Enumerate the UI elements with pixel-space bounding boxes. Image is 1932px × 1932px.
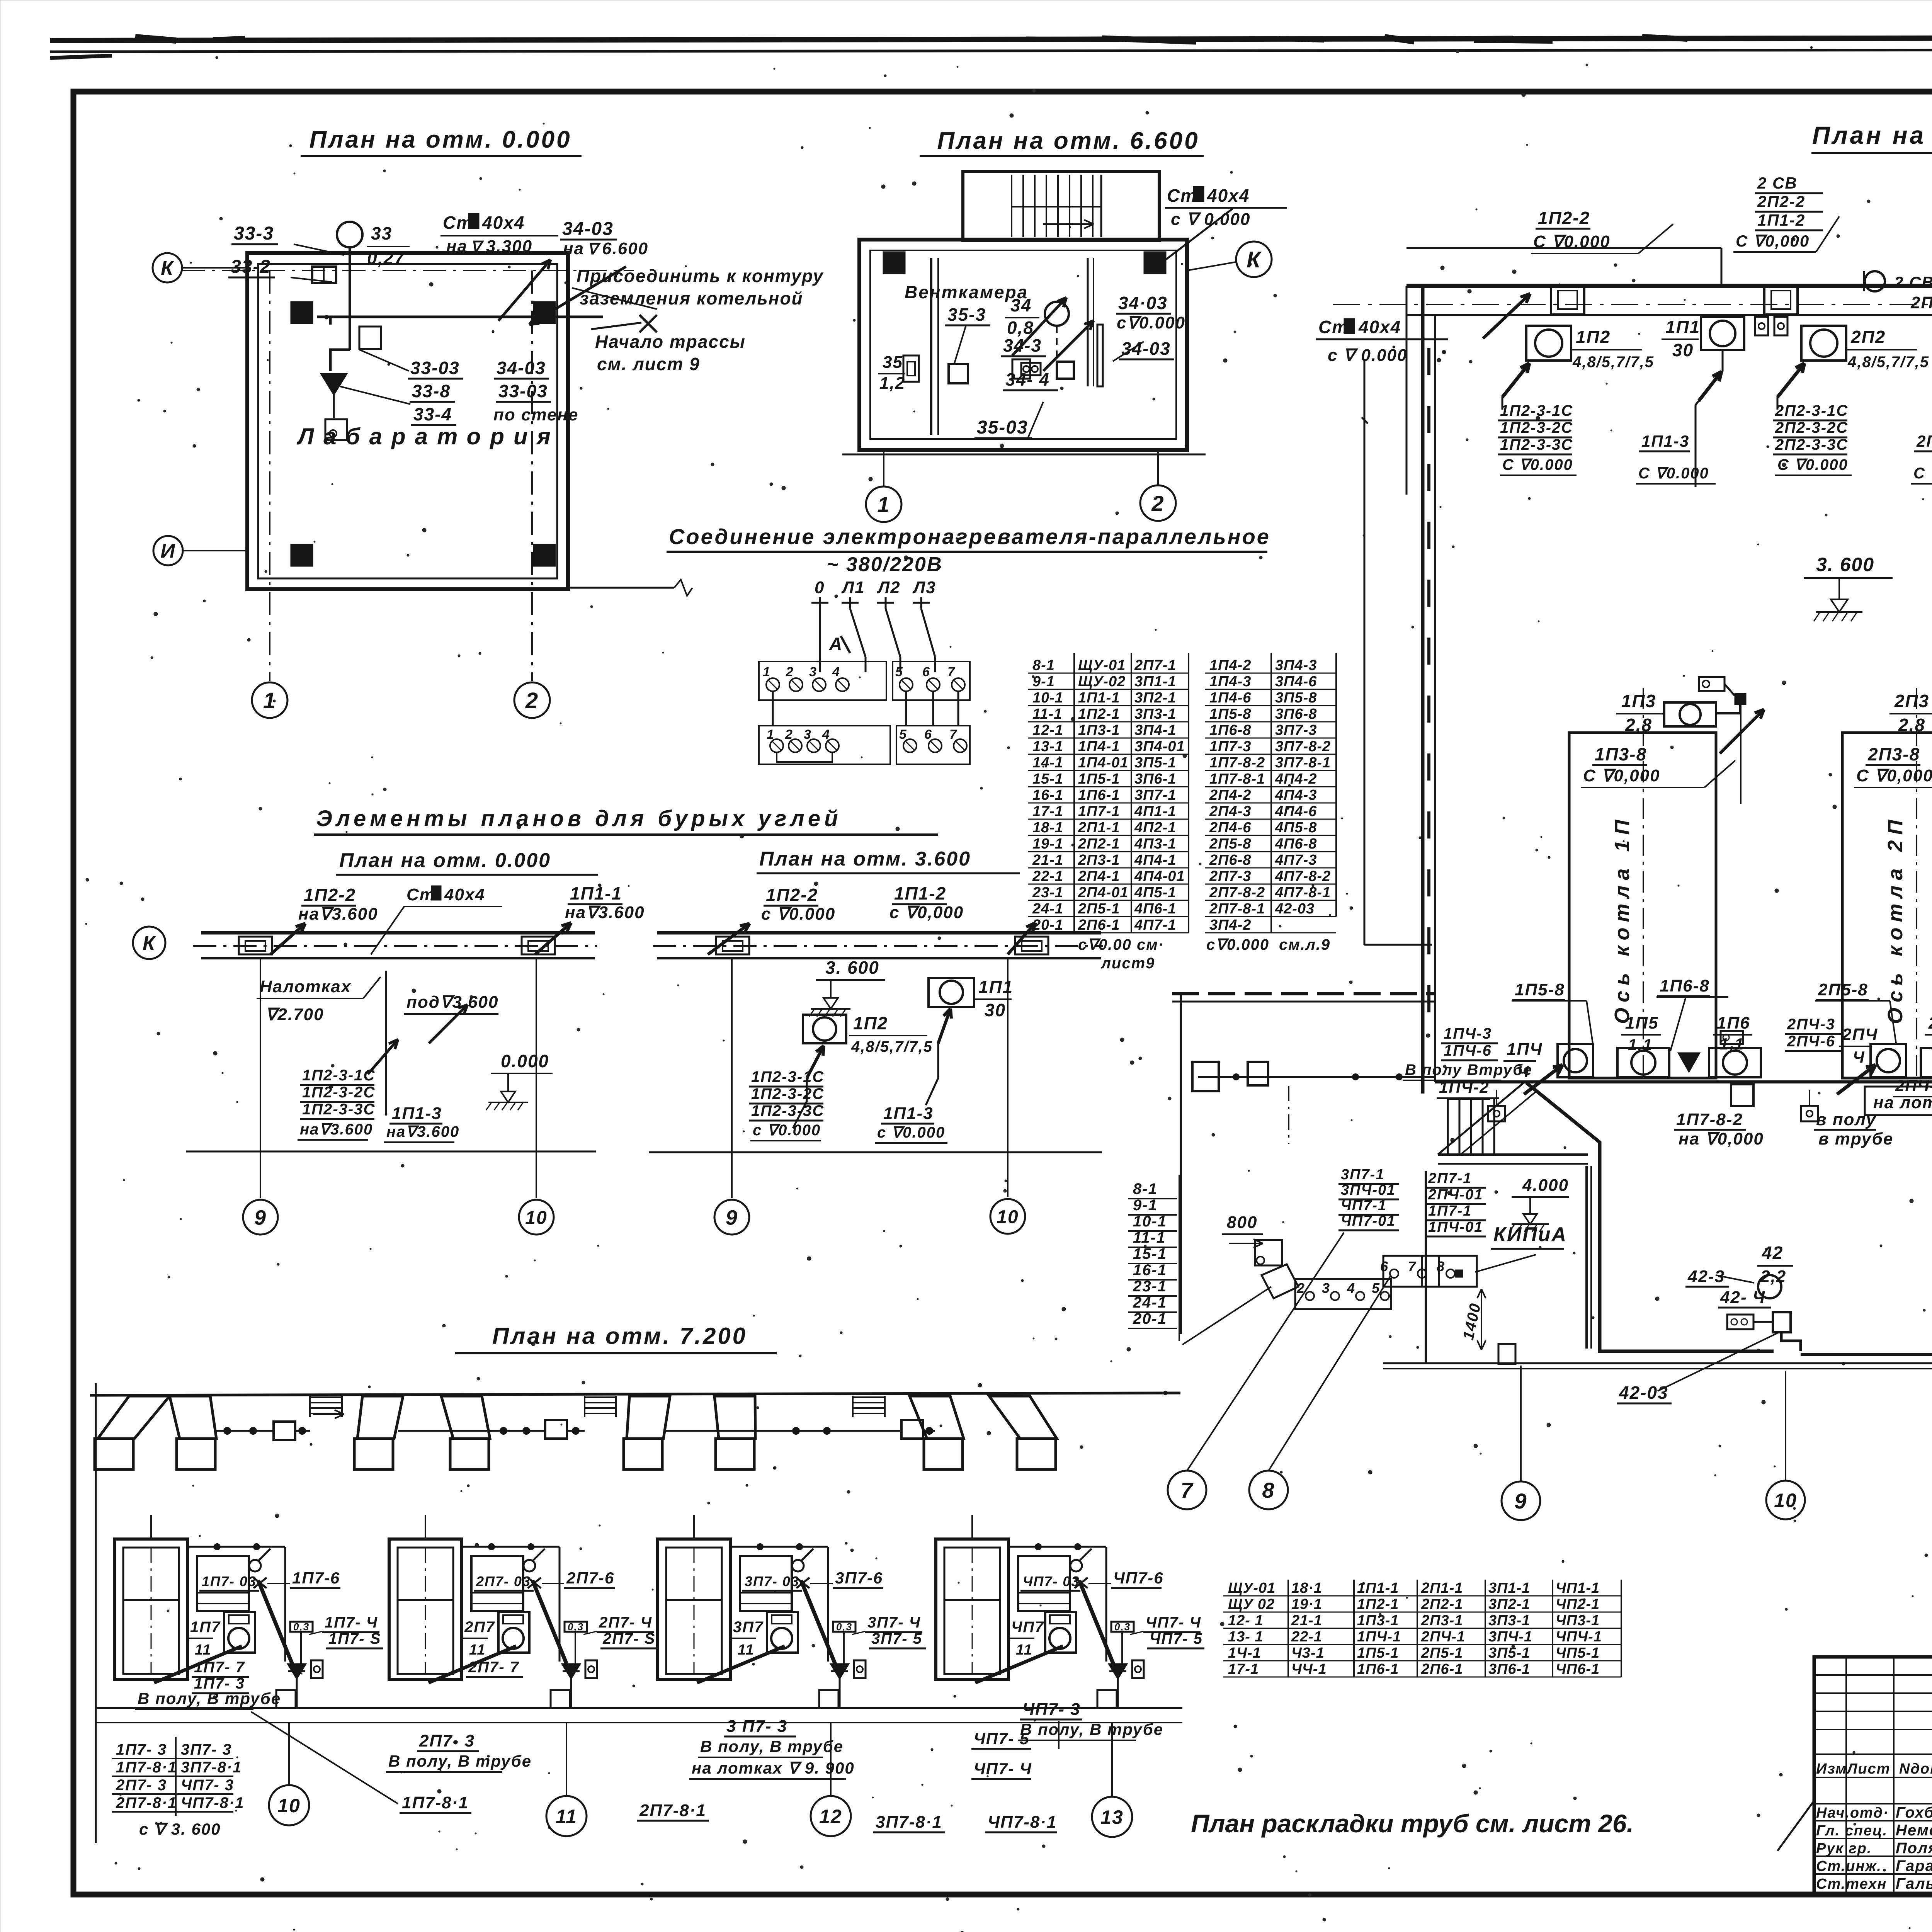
svg-text:1ПЧ-6: 1ПЧ-6 — [1444, 1042, 1492, 1059]
top wall axis K dashdot — [1333, 304, 1932, 305]
svg-text:2П2-2: 2П2-2 — [1910, 293, 1932, 312]
svg-text:1П2-2: 1П2-2 — [1538, 208, 1590, 228]
svg-text:4,8/5,7/7,5: 4,8/5,7/7,5 — [851, 1038, 933, 1055]
svg-text:3П4-01: 3П4-01 — [1134, 738, 1185, 755]
svg-text:1П5-1: 1П5-1 — [1357, 1645, 1399, 1661]
svg-text:∇2.700: ∇2.700 — [265, 1005, 324, 1024]
svg-text:2,8: 2,8 — [1898, 715, 1925, 735]
wire box 2 — [545, 1420, 567, 1439]
fan unit 2P7 — [498, 1612, 529, 1653]
svg-text:12: 12 — [1745, 1929, 1765, 1932]
wire box 3 — [901, 1420, 923, 1439]
leader from stairwell to label — [1151, 209, 1233, 270]
svg-text:ЧП7-1: ЧП7-1 — [1341, 1197, 1387, 1214]
svg-text:Л1: Л1 — [841, 578, 865, 597]
mini2 ground line — [649, 1151, 1102, 1153]
svg-text:2П7- 03: 2П7- 03 — [476, 1573, 531, 1589]
svg-text:3.300: 3.300 — [486, 237, 532, 256]
svg-text:ЧП7-8·1: ЧП7-8·1 — [988, 1813, 1057, 1832]
svg-text:1П6: 1П6 — [1717, 1014, 1750, 1032]
wire box 1 — [274, 1422, 295, 1440]
svg-text:С ∇0.000: С ∇0.000 — [1638, 465, 1709, 482]
svg-text:1П3-1: 1П3-1 — [1078, 722, 1120, 738]
switch row right of list — [1295, 1279, 1391, 1309]
lower terminal dashed box right — [896, 726, 970, 764]
cable arrows on main cable — [1524, 1065, 1563, 1094]
left wall window dashes — [1427, 348, 1430, 375]
column wire 3 — [665, 1430, 901, 1432]
svg-text:План на отм. 6.600: План на отм. 6.600 — [937, 128, 1199, 154]
svg-text:33: 33 — [371, 223, 392, 243]
svg-text:Гаража: Гаража — [1896, 1857, 1932, 1874]
unit ЧP7 top cable — [1009, 1546, 1106, 1548]
wall cable along top — [317, 316, 603, 318]
KIPiA room left wall — [1425, 1171, 1427, 1364]
device box left a — [903, 355, 919, 382]
thick lever 1P7 diagonal — [258, 1580, 294, 1669]
svg-text:3 П7- 3: 3 П7- 3 — [726, 1717, 787, 1736]
svg-text:18·1: 18·1 — [1291, 1580, 1322, 1596]
svg-text:1П1-1: 1П1-1 — [1357, 1580, 1399, 1596]
svg-text:ЧП7- Ч: ЧП7- Ч — [974, 1760, 1032, 1778]
svg-text:с ∇ 0.000: с ∇ 0.000 — [1328, 346, 1407, 365]
svg-text:34-03: 34-03 — [1121, 338, 1171, 359]
svg-text:План на отм. 7.200: План на отм. 7.200 — [492, 1323, 747, 1349]
svg-text:Налотках: Налотках — [260, 977, 351, 996]
title block outer — [1814, 1657, 1932, 1895]
unit 1P7 tall cabinet — [115, 1539, 187, 1679]
svg-text:11: 11 — [556, 1806, 577, 1827]
cable from corner — [1182, 1287, 1271, 1345]
svg-text:3П7-6: 3П7-6 — [835, 1569, 883, 1587]
unit 3P7-03 box — [740, 1556, 792, 1611]
svg-text:2П7-6: 2П7-6 — [566, 1569, 614, 1587]
column 3 trapezoid — [357, 1396, 403, 1439]
svg-text:1П7-1: 1П7-1 — [1428, 1203, 1472, 1219]
column 6 trapezoid — [714, 1396, 755, 1439]
svg-text:ЧП7-01: ЧП7-01 — [1341, 1213, 1396, 1229]
svg-text:4П4-2: 4П4-2 — [1275, 771, 1317, 787]
wall cable run — [1801, 1353, 1932, 1356]
svg-text:2П2-3-1С: 2П2-3-1С — [1775, 402, 1848, 419]
stair hatch 1 — [310, 1396, 342, 1398]
svg-text:2П7-1: 2П7-1 — [1428, 1170, 1472, 1187]
thick lever ЧP7 diagonal — [1079, 1580, 1116, 1669]
device box left b — [949, 364, 968, 383]
grid circle 1 — [252, 682, 287, 718]
junction 1P3 — [1735, 693, 1746, 705]
svg-text:2П7-8·1: 2П7-8·1 — [639, 1801, 706, 1820]
stair hatch 2 — [585, 1396, 616, 1398]
thick cable 1P7 from circle — [154, 1646, 242, 1683]
svg-text:0.000: 0.000 — [501, 1051, 549, 1071]
svg-text:33-03: 33-03 — [410, 358, 460, 378]
door opening band 2 — [1764, 286, 1798, 315]
svg-text:2: 2 — [1151, 491, 1164, 515]
stair top left corridor — [1447, 1099, 1449, 1153]
small box 03 3P7 — [833, 1622, 855, 1632]
svg-text:3П7- 5: 3П7- 5 — [871, 1630, 922, 1647]
svg-text:17-1: 17-1 — [1228, 1661, 1259, 1677]
svg-text:2П7- 3: 2П7- 3 — [419, 1731, 475, 1750]
svg-text:4П4-3: 4П4-3 — [1275, 787, 1317, 803]
svg-text:см. лист 9: см. лист 9 — [597, 354, 700, 374]
svg-text:2П5-1: 2П5-1 — [1421, 1645, 1463, 1661]
svg-text:В полу, В трубе: В полу, В трубе — [388, 1752, 532, 1770]
grid circle 1 plan66 — [866, 486, 901, 522]
svg-text:6: 6 — [924, 727, 932, 742]
svg-text:ЩУ-01: ЩУ-01 — [1078, 657, 1126, 673]
svg-text:33-03: 33-03 — [498, 381, 548, 401]
small box 03 2P7 — [565, 1622, 587, 1632]
svg-text:35: 35 — [883, 353, 903, 372]
svg-text:1П2-3-2С: 1П2-3-2С — [302, 1084, 375, 1101]
svg-text:2П7-8-1: 2П7-8-1 — [1209, 901, 1265, 917]
svg-text:1П5-1: 1П5-1 — [1078, 771, 1120, 787]
svg-text:4: 4 — [1347, 1280, 1355, 1296]
svg-text:1П2-3-2С: 1П2-3-2С — [751, 1085, 824, 1102]
svg-text:2П4-01: 2П4-01 — [1078, 884, 1129, 901]
top wall band inner — [1406, 314, 1932, 316]
svg-text:10: 10 — [277, 1795, 301, 1816]
svg-text:40х4: 40х4 — [444, 885, 485, 904]
svg-text:8-1: 8-1 — [1032, 657, 1055, 673]
boiler 2P outline — [1842, 733, 1932, 1078]
corner column top-left — [291, 301, 313, 324]
svg-text:Ч3-1: Ч3-1 — [1291, 1645, 1325, 1661]
svg-text:7: 7 — [947, 665, 956, 679]
svg-text:Ст.инж.: Ст.инж. — [1816, 1858, 1882, 1874]
svg-text:1П6-8: 1П6-8 — [1209, 722, 1251, 738]
svg-text:16-1: 16-1 — [1032, 787, 1063, 803]
svg-text:13-1: 13-1 — [1032, 738, 1063, 755]
svg-text:1П2-3-2С: 1П2-3-2С — [1500, 419, 1573, 436]
cable drop mini2 fan2 — [938, 1009, 951, 1043]
svg-text:ЩУ 02: ЩУ 02 — [1228, 1596, 1275, 1612]
sheet top scan line 2 — [50, 49, 1932, 52]
fan circle device 34 — [1045, 302, 1069, 326]
svg-text:24-1: 24-1 — [1133, 1294, 1167, 1311]
svg-text:1П1-1: 1П1-1 — [570, 883, 622, 903]
svg-text:1П7-1: 1П7-1 — [1078, 803, 1120, 820]
svg-text:1П4-01: 1П4-01 — [1078, 755, 1129, 771]
svg-text:2П6-1: 2П6-1 — [1078, 917, 1120, 933]
unit 3P7 top cable — [730, 1546, 828, 1548]
grid circle 7 — [1168, 1471, 1206, 1509]
cable drop 2P2 — [1777, 363, 1804, 397]
svg-text:2П3-1: 2П3-1 — [1078, 852, 1120, 868]
svg-text:4: 4 — [832, 665, 840, 679]
corner diagonal near caption — [1777, 1801, 1814, 1851]
grid line 1 plan66 — [883, 450, 884, 486]
svg-text:3П7- Ч: 3П7- Ч — [867, 1614, 921, 1631]
unit 2P7 inner lines — [398, 1599, 453, 1601]
svg-text:4П5-1: 4П5-1 — [1134, 884, 1176, 901]
fan unit 1P2 — [1526, 326, 1571, 361]
roof diagonal 1 — [1438, 1082, 1525, 1155]
staff rows lines — [1814, 1803, 1932, 1804]
boiler 2P axis dashdot — [1916, 688, 1917, 1082]
svg-text:1П7- S: 1П7- S — [328, 1630, 381, 1647]
table right verticals — [1270, 653, 1272, 933]
corner column top-right — [533, 301, 556, 324]
svg-text:С ∇0.000: С ∇0.000 — [1533, 232, 1611, 251]
D-box 2P7 — [585, 1660, 597, 1678]
svg-text:1: 1 — [767, 727, 775, 742]
svg-text:3П5-1: 3П5-1 — [1488, 1645, 1530, 1661]
device box right — [1057, 362, 1074, 379]
svg-text:на∇3.600: на∇3.600 — [386, 1123, 459, 1140]
junction triangle 2P7 — [563, 1664, 580, 1678]
svg-text:План на отм. 3.600: План на отм. 3.600 — [759, 848, 971, 870]
svg-text:0,3: 0,3 — [836, 1621, 852, 1633]
svg-text:3: 3 — [809, 665, 817, 679]
svg-text:2П2-1: 2П2-1 — [1421, 1596, 1463, 1612]
lever circle 3P7 — [792, 1560, 804, 1571]
svg-text:18-1: 18-1 — [1032, 820, 1063, 836]
svg-text:ЧП7- 3: ЧП7- 3 — [1022, 1700, 1081, 1719]
svg-text:9-1: 9-1 — [1032, 673, 1055, 690]
fan unit 1P1 mini2 — [929, 978, 974, 1007]
svg-text:2П3-1: 2П3-1 — [1421, 1612, 1463, 1629]
svg-text:2П5: 2П5 — [1928, 1014, 1932, 1032]
grid circle 2 — [514, 682, 550, 718]
svg-text:К: К — [143, 932, 156, 955]
svg-text:9: 9 — [254, 1206, 267, 1229]
svg-text:6.600: 6.600 — [602, 239, 648, 258]
D-box ЧP7 — [1132, 1660, 1144, 1678]
svg-text:19·1: 19·1 — [1291, 1596, 1322, 1612]
svg-text:Гальцова: Гальцова — [1896, 1875, 1932, 1892]
svg-text:3П7-3: 3П7-3 — [1275, 722, 1317, 738]
svg-text:34: 34 — [1010, 295, 1032, 315]
svg-text:1П4-1: 1П4-1 — [1078, 738, 1120, 755]
column 6 base — [716, 1439, 754, 1469]
svg-text:на∇3.600: на∇3.600 — [300, 1121, 373, 1138]
plan72 left vertical — [95, 1383, 97, 1843]
svg-text:4,8/5,7/7,5: 4,8/5,7/7,5 — [1572, 354, 1654, 371]
svg-text:1П1: 1П1 — [1665, 317, 1700, 337]
svg-text:1П2-1: 1П2-1 — [1357, 1596, 1399, 1612]
unit 3P7 tall cabinet — [658, 1539, 730, 1679]
upper outline line — [1406, 247, 1721, 249]
svg-text:3П7-8-1: 3П7-8-1 — [1275, 755, 1331, 771]
thick lever 3P7 diagonal — [801, 1580, 837, 1669]
svg-text:1П1-2: 1П1-2 — [894, 883, 946, 903]
column wire 2 — [398, 1430, 493, 1432]
svg-text:2П4-2: 2П4-2 — [1209, 787, 1251, 803]
svg-text:2П4-1: 2П4-1 — [1078, 868, 1120, 884]
grid circle K plan66 — [1236, 241, 1272, 277]
svg-text:2П7- S: 2П7- S — [602, 1630, 655, 1647]
svg-text:ЧП7-6: ЧП7-6 — [1113, 1569, 1164, 1587]
svg-text:10-1: 10-1 — [1133, 1213, 1167, 1230]
stair hatch 3 — [853, 1396, 885, 1398]
cable drop 1P1 — [1696, 350, 1723, 487]
trass cross marks — [639, 315, 657, 332]
unit 42 small box — [1727, 1315, 1753, 1329]
diagonal box 2 — [1262, 1264, 1298, 1298]
upper terminal dashed box right — [893, 662, 970, 700]
svg-text:1П7-8-2: 1П7-8-2 — [1676, 1110, 1743, 1129]
grid circle 12 plan72 — [830, 1723, 832, 1795]
grid circle 10 big — [1766, 1481, 1805, 1519]
svg-text:1П2: 1П2 — [1576, 327, 1611, 347]
svg-text:35-03: 35-03 — [977, 417, 1028, 438]
mini plan 1 door opening 1 — [239, 937, 272, 954]
corner column right — [1144, 252, 1166, 274]
svg-text:1,2: 1,2 — [879, 374, 905, 393]
laboratory room outer wall — [247, 253, 568, 589]
unit 1P7-03 box — [197, 1556, 249, 1611]
junction boxes on cable — [1731, 1084, 1753, 1106]
svg-text:9: 9 — [1514, 1489, 1527, 1513]
svg-text:с ∇0.000: с ∇0.000 — [761, 905, 835, 923]
svg-text:1П7-8-1: 1П7-8-1 — [1209, 771, 1265, 787]
wires into terminal box — [819, 657, 821, 672]
column 8 base — [1017, 1439, 1056, 1469]
svg-text:1П7: 1П7 — [190, 1619, 221, 1636]
svg-text:План раскладки труб см. лист 2: План раскладки труб см. лист 26. — [1191, 1809, 1634, 1838]
svg-text:4П7-1: 4П7-1 — [1134, 917, 1176, 933]
svg-text:Ч: Ч — [1517, 1063, 1530, 1081]
svg-text:Венткамера: Венткамера — [905, 282, 1028, 302]
terminal strip row — [1383, 1256, 1477, 1287]
device 33 circle — [337, 222, 362, 247]
grid leader 8 — [1269, 1275, 1391, 1471]
svg-text:1П2-3-3С: 1П2-3-3С — [1500, 436, 1573, 453]
svg-text:3П4-2: 3П4-2 — [1209, 917, 1251, 933]
X mark 1P7 — [253, 1578, 267, 1588]
wire riser — [330, 350, 350, 371]
svg-text:Элементы планов для бурых: Элементы планов для бурых углей — [316, 806, 842, 831]
upper terminal dashed box left — [759, 662, 886, 700]
corner column bottom-left — [291, 544, 313, 566]
svg-text:ИзмЛист: ИзмЛист — [1816, 1761, 1891, 1777]
small box on wall — [1498, 1344, 1515, 1364]
svg-text:ЧП7- 5: ЧП7- 5 — [974, 1730, 1029, 1748]
grid circle K left — [153, 253, 182, 282]
svg-text:Л3: Л3 — [912, 578, 936, 597]
svg-text:2П7: 2П7 — [464, 1619, 495, 1636]
svg-text:1П7- 03: 1П7- 03 — [202, 1573, 257, 1589]
svg-text:22-1: 22-1 — [1291, 1629, 1322, 1645]
dimension 1400 — [1481, 1289, 1482, 1350]
fan unit 1P7 — [224, 1612, 255, 1653]
svg-text:Гохбойм: Гохбойм — [1896, 1804, 1932, 1821]
svg-text:2: 2 — [785, 727, 793, 742]
svg-text:16-1: 16-1 — [1133, 1262, 1167, 1279]
switch boxes 1P — [1755, 317, 1768, 335]
svg-text:1П4-6: 1П4-6 — [1209, 690, 1251, 706]
svg-text:1П2-1: 1П2-1 — [1078, 706, 1120, 722]
lever circle 2P7 — [524, 1560, 535, 1571]
D-box 1P7 — [311, 1660, 323, 1678]
svg-text:4П7-8-2: 4П7-8-2 — [1275, 868, 1331, 884]
left wing box 1 — [1192, 1062, 1219, 1091]
lever circle ЧP7 — [1070, 1560, 1082, 1571]
svg-text:20-1: 20-1 — [1032, 917, 1063, 933]
cable drop mini2 fan1 — [807, 1046, 824, 1078]
svg-text:3П4-3: 3П4-3 — [1275, 657, 1317, 673]
lower terminal dashed box left — [759, 726, 890, 764]
thick cable ЧP7 from circle — [975, 1646, 1063, 1683]
svg-text:1П1-3: 1П1-3 — [392, 1104, 442, 1123]
sheet top scan short mark — [50, 56, 112, 58]
column 7 trapezoid — [910, 1396, 964, 1439]
svg-text:21-1: 21-1 — [1291, 1612, 1322, 1629]
flag box — [359, 327, 381, 349]
triangle device 33-4 — [321, 374, 346, 394]
lower terminals — [770, 739, 783, 752]
svg-text:2П7-8-2: 2П7-8-2 — [1209, 884, 1265, 901]
grid circle K mini1 — [133, 927, 165, 959]
svg-text:11: 11 — [1016, 1642, 1032, 1658]
svg-text:Л2: Л2 — [877, 578, 901, 597]
small box below — [325, 419, 347, 440]
junction triangle 1P7 — [288, 1664, 305, 1678]
svg-text:11-1: 11-1 — [1133, 1229, 1166, 1246]
svg-text:5: 5 — [899, 727, 907, 742]
svg-text:1П1-3: 1П1-3 — [883, 1104, 934, 1123]
svg-text:1П5-8: 1П5-8 — [1515, 980, 1565, 999]
svg-text:11: 11 — [469, 1642, 486, 1658]
long leader from 7 to corridor — [1187, 1260, 1376, 1471]
svg-text:Ось котла 2П: Ось котла 2П — [1884, 815, 1907, 1024]
KIPiA room right wall — [1585, 1166, 1588, 1349]
thick cable diagonal — [1526, 1083, 1774, 1351]
unit 42 circle — [1758, 1275, 1781, 1298]
junction triangle ЧP7 — [1109, 1664, 1126, 1678]
svg-text:20-1: 20-1 — [1133, 1310, 1167, 1327]
svg-text:1П7-8-2: 1П7-8-2 — [1209, 755, 1265, 771]
svg-text:3П7-1: 3П7-1 — [1341, 1167, 1384, 1183]
lever circle 1P7 — [249, 1560, 261, 1571]
wire L1 with switch — [849, 597, 851, 609]
svg-text:1П2: 1П2 — [853, 1013, 888, 1033]
mini plan 2 door opening 1 — [716, 937, 749, 954]
svg-text:см.л.9: см.л.9 — [1279, 936, 1330, 953]
svg-text:3П5-8: 3П5-8 — [1275, 690, 1317, 706]
left wing vertical wall — [1180, 994, 1182, 1334]
svg-text:1П2-3-1С: 1П2-3-1С — [751, 1068, 824, 1085]
svg-text:2П5-1: 2П5-1 — [1078, 901, 1120, 917]
mini plan 2 axis dashdot — [653, 945, 1103, 947]
svg-text:2П2-3-3С: 2П2-3-3С — [1775, 436, 1848, 453]
svg-text:3: 3 — [804, 727, 812, 742]
svg-text:2П2-1: 2П2-1 — [1078, 836, 1120, 852]
svg-text:10: 10 — [525, 1207, 547, 1228]
top wall band thick — [1406, 284, 1932, 288]
unit ЧP7 axis vertical — [971, 1515, 973, 1539]
unit 3P7 axis vertical — [693, 1515, 695, 1539]
svg-text:2: 2 — [786, 665, 794, 679]
svg-text:ЧП6-1: ЧП6-1 — [1556, 1661, 1600, 1677]
D-box 3P7 — [854, 1660, 866, 1678]
svg-text:1П1: 1П1 — [978, 977, 1013, 997]
svg-text:2: 2 — [1296, 1280, 1305, 1296]
corridor floor line — [1438, 1153, 1588, 1156]
svg-text:4.000: 4.000 — [1522, 1176, 1569, 1195]
svg-text:2 СВ: 2 СВ — [1757, 174, 1798, 192]
svg-text:с ∇0.000: с ∇0.000 — [877, 1124, 945, 1141]
boiler 1P axis dashdot — [1643, 688, 1644, 1082]
wall dash-dot axis K — [182, 270, 634, 271]
svg-text:13- 1: 13- 1 — [1228, 1629, 1264, 1645]
mini1 extra drop — [385, 971, 387, 1116]
svg-text:3П4-1: 3П4-1 — [1134, 722, 1176, 738]
stairwell outer — [963, 172, 1159, 240]
